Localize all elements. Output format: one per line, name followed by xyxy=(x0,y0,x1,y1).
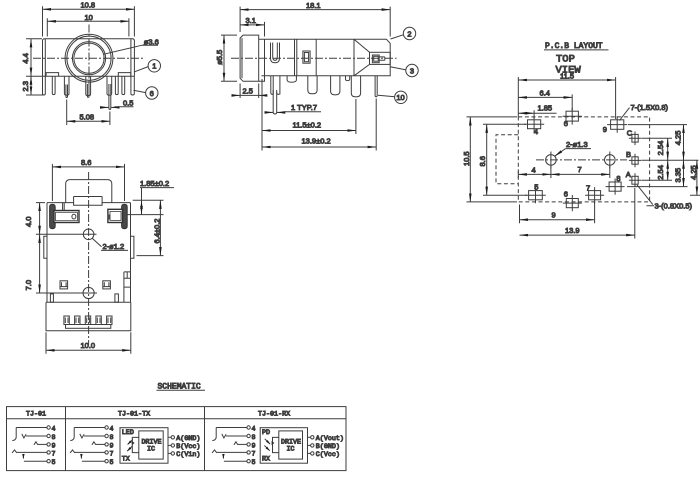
diode mark TX xyxy=(132,441,135,445)
right clip notch xyxy=(108,215,111,220)
dimension 11.5 pcb xyxy=(518,79,615,81)
svg-text:4: 4 xyxy=(534,127,538,136)
right step detail xyxy=(124,272,131,302)
TX bracket xyxy=(132,437,139,452)
mounting hole 2 xyxy=(83,287,94,298)
center leg xyxy=(86,76,91,95)
LED symbol arrows xyxy=(128,439,133,444)
dimension 0.5 xyxy=(101,106,109,108)
body side edges xyxy=(47,203,131,303)
svg-text:18.1: 18.1 xyxy=(306,1,321,10)
svg-text:1.85±0.2: 1.85±0.2 xyxy=(140,179,169,188)
svg-text:7: 7 xyxy=(586,184,590,193)
svg-text:2-ø1.2: 2-ø1.2 xyxy=(103,242,125,251)
pcb centerline xyxy=(536,159,627,161)
callout 3 xyxy=(406,64,418,76)
dimension 4 pcb xyxy=(518,173,551,175)
svg-text:ø3.6: ø3.6 xyxy=(144,37,159,46)
RX output B xyxy=(308,444,311,446)
dimension 2.54 top xyxy=(667,138,669,160)
barrel outer ring xyxy=(65,34,113,82)
svg-text:9: 9 xyxy=(552,211,556,220)
pad 6 top xyxy=(566,111,578,121)
dimension 4.4 xyxy=(30,39,32,76)
svg-text:10.0: 10.0 xyxy=(81,341,96,350)
svg-text:13.9±0.2: 13.9±0.2 xyxy=(302,137,331,146)
left clip hole xyxy=(72,214,76,219)
centerline side view xyxy=(231,57,397,59)
svg-text:10.5: 10.5 xyxy=(462,151,471,166)
svg-text:4.25: 4.25 xyxy=(673,131,682,146)
left clip stub xyxy=(63,203,65,211)
leg 4 wide xyxy=(107,76,112,95)
pad 7 xyxy=(589,191,601,200)
svg-text:6.4: 6.4 xyxy=(540,89,550,98)
leg 3 pin xyxy=(66,85,68,98)
callout 2 xyxy=(403,27,415,39)
jack contacts cell 2 xyxy=(70,425,113,467)
svg-text:6: 6 xyxy=(150,89,154,98)
svg-text:TJ-01: TJ-01 xyxy=(26,410,46,418)
svg-text:TJ-01-RX: TJ-01-RX xyxy=(258,410,290,418)
dimension 5.08 xyxy=(67,120,110,122)
leg 3 wide xyxy=(64,76,69,95)
svg-text:4: 4 xyxy=(532,166,536,175)
dimension 10 xyxy=(47,20,129,22)
table divider 2 xyxy=(204,407,206,471)
svg-text:2.3: 2.3 xyxy=(21,81,30,91)
RX bracket xyxy=(273,437,279,452)
svg-text:10.8: 10.8 xyxy=(81,1,96,10)
left clip strip xyxy=(50,204,56,228)
pad B xyxy=(632,157,638,164)
dimension 9 pcb xyxy=(520,219,595,221)
svg-text:11.5±0.2: 11.5±0.2 xyxy=(293,120,322,129)
table header line xyxy=(7,418,347,420)
jack contacts cell 1 xyxy=(12,425,55,467)
flange step xyxy=(259,76,265,82)
jack contacts cell 3 xyxy=(212,425,255,467)
hole label 2-1.2 xyxy=(92,238,101,247)
flange bottom view xyxy=(66,180,112,203)
pad C xyxy=(632,134,638,142)
flange notch xyxy=(74,197,103,203)
pad 9 xyxy=(611,120,624,130)
pin box lines xyxy=(379,57,385,60)
dimension 18.1 xyxy=(240,9,390,11)
dimension 13.9 pcb xyxy=(520,234,635,236)
svg-text:A(Vout): A(Vout) xyxy=(316,435,344,443)
shoulder left xyxy=(46,73,59,77)
section divider 1 xyxy=(295,39,297,76)
contact wire pin5 xyxy=(22,456,24,459)
svg-text:C: C xyxy=(627,128,633,137)
svg-text:8.6: 8.6 xyxy=(478,156,487,166)
dimension dia 5.5 xyxy=(223,35,225,81)
comb bracket xyxy=(64,316,69,325)
svg-text:9: 9 xyxy=(603,125,607,134)
dimension 4.0 xyxy=(39,203,41,235)
bump 1 xyxy=(287,76,296,82)
leg 4 thin long pin xyxy=(109,84,111,110)
dimension 8.6 pcb xyxy=(486,124,488,195)
left clip plate xyxy=(54,211,79,223)
svg-text:C(Vin): C(Vin) xyxy=(176,451,200,459)
TX output B xyxy=(168,444,171,446)
svg-text:3: 3 xyxy=(410,66,414,75)
svg-text:0.5: 0.5 xyxy=(123,98,133,107)
hole left 1.3 xyxy=(546,155,557,166)
corner foot left xyxy=(50,294,53,302)
flange outline xyxy=(240,35,259,81)
svg-text:4.0: 4.0 xyxy=(24,217,33,227)
svg-text:3.1: 3.1 xyxy=(246,16,256,25)
table outer border xyxy=(7,407,347,471)
flange inner edge line xyxy=(241,38,243,78)
RX drive IC box xyxy=(279,431,303,459)
svg-text:LED: LED xyxy=(122,429,134,437)
svg-text:11.5: 11.5 xyxy=(560,71,574,80)
svg-text:1 TYP.7: 1 TYP.7 xyxy=(291,103,317,112)
svg-text:5: 5 xyxy=(52,459,56,467)
dimension 7.0 xyxy=(39,234,41,293)
svg-text:PD: PD xyxy=(262,429,270,437)
svg-text:5: 5 xyxy=(534,183,538,192)
leg B2 xyxy=(308,76,317,94)
lower section xyxy=(46,302,131,331)
body top edge xyxy=(47,203,131,206)
svg-text:8: 8 xyxy=(52,434,56,442)
mounting hole 1 xyxy=(83,229,94,240)
callout 6 xyxy=(146,87,158,99)
dimension 3.35 xyxy=(683,160,685,186)
svg-text:10: 10 xyxy=(85,13,93,22)
barrel inner ring xyxy=(72,42,105,75)
leg 5 xyxy=(115,76,118,94)
pin box inner xyxy=(372,55,379,63)
recess diagonal upper xyxy=(354,39,370,52)
dimension 1 TYP.7 xyxy=(265,111,274,113)
body outline front view xyxy=(43,39,135,76)
svg-text:2: 2 xyxy=(407,29,411,38)
TX output C xyxy=(168,452,171,454)
svg-text:7: 7 xyxy=(578,165,582,174)
pad 8 xyxy=(609,182,621,191)
pin window left xyxy=(60,281,68,289)
center leg pin xyxy=(87,84,89,97)
pin box xyxy=(370,52,391,64)
leg B1 pin xyxy=(273,90,277,114)
centerline vertical bottom view xyxy=(88,172,90,345)
TX output A xyxy=(168,436,171,438)
U slot detail xyxy=(271,43,280,63)
pad 5 xyxy=(529,191,543,200)
svg-text:9: 9 xyxy=(52,442,56,450)
svg-text:4: 4 xyxy=(52,425,56,433)
leg 2 xyxy=(52,76,55,94)
svg-text:2.54: 2.54 xyxy=(656,141,665,156)
pad 4 xyxy=(528,120,541,129)
dimension 10.5 xyxy=(469,117,471,202)
svg-text:4.4: 4.4 xyxy=(21,53,30,63)
dimension 2.3 xyxy=(30,76,32,95)
contact wire pin4 xyxy=(12,428,16,441)
svg-text:10: 10 xyxy=(396,93,404,102)
dimension 1.85 pcb xyxy=(518,112,534,114)
right extension lines xyxy=(627,125,700,196)
leg 6 xyxy=(122,76,125,94)
svg-text:IC: IC xyxy=(147,446,155,454)
dimension 4.25 bottom xyxy=(696,160,698,195)
centerline vertical xyxy=(88,25,90,98)
svg-text:1: 1 xyxy=(152,62,156,71)
TX module box xyxy=(120,428,168,464)
callout 10 xyxy=(395,91,407,103)
svg-text:7-(1.5X0.8): 7-(1.5X0.8) xyxy=(631,103,669,112)
bump 2 xyxy=(346,76,350,81)
svg-text:2.54: 2.54 xyxy=(656,165,665,180)
contact wire pin7 xyxy=(12,450,17,453)
window detail xyxy=(303,51,310,63)
contact wire pin9 xyxy=(34,442,38,445)
dimension 11.5 xyxy=(262,130,356,132)
dimension 2.54 bottom xyxy=(667,160,669,180)
right tab xyxy=(131,236,134,258)
svg-text:13.9: 13.9 xyxy=(565,226,580,235)
dimension 4.25 top xyxy=(683,125,685,161)
pin window right xyxy=(103,281,111,289)
contact wire pin8 xyxy=(22,434,26,438)
svg-text:7.0: 7.0 xyxy=(24,280,33,290)
svg-text:8: 8 xyxy=(616,174,620,183)
dimension 13.9 xyxy=(262,146,376,148)
svg-text:6.4±0.2: 6.4±0.2 xyxy=(152,219,161,244)
left tab xyxy=(44,236,47,258)
body outline side view xyxy=(259,39,391,76)
RX module box xyxy=(260,428,307,464)
leg left edge xyxy=(43,39,46,95)
shoulder right xyxy=(118,73,131,77)
section divider 3 xyxy=(353,39,355,76)
body bottom edge xyxy=(43,75,135,77)
TX drive IC box xyxy=(139,431,163,459)
svg-text:4.25: 4.25 xyxy=(689,165,698,180)
pad A xyxy=(632,176,638,184)
svg-text:1.85: 1.85 xyxy=(538,104,553,113)
dimension 2.5 xyxy=(232,94,241,96)
svg-text:7: 7 xyxy=(52,450,56,458)
right clip strip xyxy=(122,204,128,228)
dimension 8.6 view C xyxy=(52,166,124,168)
diode mark RX xyxy=(272,441,275,445)
right clip plate xyxy=(108,209,123,222)
hole right 1.3 xyxy=(605,155,616,166)
svg-text:IC: IC xyxy=(287,446,295,454)
svg-text:8.6: 8.6 xyxy=(81,158,91,167)
leg B1 xyxy=(271,76,280,95)
dimension 6.4 view C xyxy=(159,200,161,255)
svg-text:2-ø1.3: 2-ø1.3 xyxy=(566,140,588,149)
svg-text:C(Vcc): C(Vcc) xyxy=(316,451,340,459)
svg-text:6: 6 xyxy=(564,119,568,128)
svg-text:A: A xyxy=(626,170,631,179)
PD symbol arrows xyxy=(265,439,270,444)
footprint dashed outline xyxy=(518,117,649,202)
pad 6 bottom xyxy=(566,199,578,208)
comb bar xyxy=(66,325,111,329)
svg-text:ø5.5: ø5.5 xyxy=(215,50,224,65)
thin pin long xyxy=(375,76,377,97)
svg-text:B: B xyxy=(626,150,631,159)
svg-text:3-(0.8X0.5): 3-(0.8X0.5) xyxy=(655,201,693,210)
dimension 7 pcb xyxy=(551,173,610,175)
leg B4 xyxy=(351,76,360,97)
centerline horizontal xyxy=(33,57,145,59)
RX output C xyxy=(308,452,311,454)
svg-text:RX: RX xyxy=(262,456,270,464)
svg-text:B(GND): B(GND) xyxy=(316,443,340,451)
svg-text:TX: TX xyxy=(122,456,130,464)
svg-text:6: 6 xyxy=(564,190,568,199)
dimension 10.8 xyxy=(43,8,135,10)
svg-text:3.35: 3.35 xyxy=(673,168,682,183)
diameter label 3.6 xyxy=(103,45,158,54)
leg right edge xyxy=(131,39,134,95)
svg-text:A(GND): A(GND) xyxy=(176,435,200,443)
callout 1 xyxy=(148,60,160,72)
svg-text:TJ-01-TX: TJ-01-TX xyxy=(118,410,150,418)
recess diagonal lower xyxy=(354,64,370,75)
dimension 3.1 xyxy=(240,24,264,26)
svg-text:2.5: 2.5 xyxy=(243,87,253,96)
leg B3 xyxy=(331,76,340,95)
corner foot right xyxy=(115,294,119,302)
dimension 6.4 pcb xyxy=(518,96,572,98)
svg-text:B(Vcc): B(Vcc) xyxy=(176,443,200,451)
dimension 10.0 xyxy=(46,349,131,351)
svg-text:5.08: 5.08 xyxy=(80,112,95,121)
footprint dashed notch xyxy=(496,135,518,184)
RX output A xyxy=(308,436,311,438)
table divider 1 xyxy=(65,407,67,471)
section divider 2 xyxy=(315,39,317,76)
